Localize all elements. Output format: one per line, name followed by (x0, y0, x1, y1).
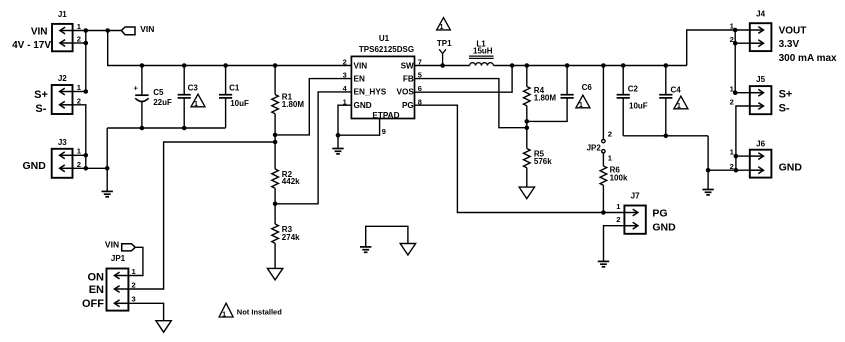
svg-text:ETPAD: ETPAD (372, 111, 399, 120)
wire R3 bottom lead (274, 243, 276, 268)
svg-text:S+: S+ (34, 89, 48, 101)
svg-text:VIN: VIN (105, 240, 119, 250)
ground under R3 (267, 268, 282, 280)
svg-text:1: 1 (77, 147, 82, 156)
wire VOUT rail to J4 (687, 30, 750, 66)
svg-text:1: 1 (677, 101, 681, 110)
svg-text:10uF: 10uF (629, 101, 648, 110)
not installed triangle C4 (674, 96, 688, 110)
wire J1 pin1 to VIN flag (73, 30, 122, 32)
svg-text:300 mA max: 300 mA max (779, 53, 837, 64)
svg-text:GND: GND (652, 222, 676, 234)
capacitor C4 (659, 94, 672, 96)
svg-text:2: 2 (343, 58, 347, 67)
connector J2 (52, 85, 73, 114)
svg-text:1.80M: 1.80M (282, 100, 305, 109)
svg-text:SW: SW (401, 62, 414, 71)
connector JP1 (107, 269, 129, 311)
jumper JP2 (602, 139, 605, 153)
svg-text:GND: GND (779, 161, 803, 173)
svg-text:C5: C5 (153, 88, 164, 97)
wire J2 pin2 to J3 chain (73, 105, 86, 169)
capacitor C4 leads (665, 66, 667, 95)
capacitor C5 (135, 95, 148, 101)
svg-text:3: 3 (343, 71, 347, 80)
svg-text:2: 2 (77, 35, 81, 44)
ground under R5 (519, 187, 534, 199)
wire JP2 to R6 (602, 153, 604, 166)
svg-text:VIN: VIN (31, 26, 48, 37)
resistor R3 (272, 224, 279, 243)
svg-text:576k: 576k (534, 157, 552, 166)
test point TP1 (439, 49, 446, 65)
svg-text:2: 2 (616, 215, 620, 224)
wire JP1 pin1 to VIN flag (128, 247, 143, 275)
svg-text:VOUT: VOUT (779, 26, 807, 37)
svg-text:C3: C3 (188, 83, 199, 92)
wire VOUT rail (493, 65, 686, 67)
resistor R2 (272, 169, 279, 188)
wire ground net tie (366, 226, 408, 247)
svg-text:2: 2 (77, 160, 81, 169)
svg-text:1: 1 (77, 83, 82, 92)
capacitor C6 leads (566, 66, 568, 95)
not installed triangle C6 (576, 95, 590, 109)
svg-text:3.3V: 3.3V (779, 39, 800, 50)
resistor R1 (272, 95, 279, 114)
svg-text:1.80M: 1.80M (534, 94, 557, 103)
svg-text:TPS62125DSG: TPS62125DSG (359, 45, 414, 54)
svg-text:S+: S+ (779, 89, 793, 101)
wire ETPAD to ground (338, 119, 380, 136)
svg-text:274k: 274k (282, 233, 300, 242)
ground net tie right (400, 244, 415, 256)
wire left ground vertical (106, 128, 108, 191)
connector J5 (750, 86, 772, 114)
wire VIN chain J1-J2 (85, 31, 87, 92)
svg-text:C4: C4 (671, 85, 682, 94)
wire J3 pin1 stub (73, 154, 86, 156)
wire right ground vertical (707, 136, 709, 190)
capacitor C2 (617, 94, 630, 96)
ground under J7 (598, 261, 609, 266)
wire JP2 top lead (602, 66, 604, 140)
wire R2-R3 link (274, 188, 276, 224)
svg-text:J5: J5 (756, 75, 765, 84)
svg-text:TP1: TP1 (437, 39, 452, 48)
wire R6 bottom lead (602, 185, 604, 212)
connector J1 (52, 24, 73, 51)
svg-text:2: 2 (608, 129, 612, 138)
svg-text:2: 2 (730, 162, 734, 171)
svg-text:2: 2 (77, 96, 81, 105)
wire J2 pin1 stub (73, 91, 86, 93)
svg-text:J6: J6 (756, 139, 765, 148)
svg-text:S-: S- (35, 103, 46, 115)
svg-text:3: 3 (132, 295, 136, 304)
svg-text:PG: PG (402, 101, 414, 110)
connector J7 (624, 206, 645, 234)
svg-text:C1: C1 (229, 83, 240, 92)
svg-text:1: 1 (77, 22, 82, 31)
svg-text:15uH: 15uH (473, 47, 493, 56)
svg-text:+: + (134, 84, 139, 93)
capacitor C1 leads (225, 66, 227, 95)
wire R1 top lead (274, 66, 276, 95)
wire R4 top lead (526, 66, 528, 87)
svg-text:EN_HYS: EN_HYS (354, 88, 387, 97)
node VIN flag bottom (122, 244, 136, 251)
svg-text:1: 1 (608, 154, 613, 163)
svg-text:2: 2 (132, 281, 136, 290)
ground under U1 (332, 149, 343, 154)
connector J4 (750, 23, 772, 51)
ground under J3 (102, 191, 113, 196)
svg-text:U1: U1 (379, 34, 390, 43)
wire J3 pin2 right (73, 167, 108, 169)
node VIN flag top (121, 27, 135, 35)
svg-text:VIN: VIN (140, 24, 154, 34)
svg-text:442k: 442k (282, 177, 300, 186)
wire JP1 pin3 to ground (128, 303, 163, 320)
capacitor C5 leads (141, 66, 143, 96)
capacitor C2 leads (622, 66, 624, 95)
wire J4 pin2 stub (735, 42, 750, 44)
wire J6 pin1 stub (736, 155, 750, 157)
svg-text:PG: PG (652, 208, 667, 220)
svg-text:J4: J4 (756, 10, 765, 19)
svg-text:2: 2 (730, 98, 734, 107)
svg-text:JP1: JP1 (111, 254, 126, 263)
svg-text:J2: J2 (58, 74, 67, 83)
wire R4-R5 link (526, 106, 528, 149)
wire J5 pin2 to J6 chain (736, 106, 750, 170)
svg-text:JP2: JP2 (587, 144, 602, 153)
wire PG to J7 (415, 105, 625, 212)
capacitor C6 (561, 94, 574, 96)
ground net tie left (360, 247, 371, 252)
svg-text:1: 1 (440, 22, 444, 31)
resistor R5 (524, 149, 531, 168)
svg-text:1: 1 (616, 202, 621, 211)
wire J4 output chain (734, 30, 736, 93)
svg-text:GND: GND (22, 160, 46, 172)
op-amp U1 TPS62125DSG body (351, 56, 414, 118)
svg-text:10uF: 10uF (230, 99, 249, 108)
wire EN node to U1 EN (275, 79, 351, 135)
svg-text:C2: C2 (628, 85, 639, 94)
wire input cap bottom rail (107, 127, 225, 129)
svg-text:ON: ON (88, 272, 105, 284)
svg-text:EN: EN (89, 284, 104, 296)
resistor R6 (600, 166, 607, 185)
ground right side (702, 190, 713, 195)
svg-text:J3: J3 (58, 138, 67, 147)
wire VIN tap down and top rail (108, 31, 352, 66)
wire VOS to rail (415, 66, 513, 93)
svg-text:9: 9 (382, 127, 386, 136)
svg-text:OFF: OFF (82, 298, 104, 310)
wire J7 pin2 to ground (604, 226, 625, 262)
wire J1 pin2 stub (73, 42, 86, 44)
inductor L1 (469, 56, 494, 65)
svg-text:VOS: VOS (397, 88, 415, 97)
wire SW to L1 (415, 65, 470, 67)
svg-text:1: 1 (132, 267, 137, 276)
wire EN_HYS node to U1 (275, 92, 351, 204)
not installed legend triangle (219, 303, 233, 318)
svg-text:EN: EN (354, 74, 365, 83)
not installed triangle C3 (191, 94, 205, 108)
svg-text:22uF: 22uF (153, 98, 172, 107)
svg-text:J1: J1 (58, 10, 67, 19)
svg-text:GND: GND (354, 101, 372, 110)
wire EN node to JP1 pin2 (128, 142, 275, 289)
svg-text:C6: C6 (582, 83, 593, 92)
wire J6 pin2 line (708, 169, 750, 171)
wire J5 pin1 stub (735, 92, 750, 94)
wire U1 GND pin to ground (338, 105, 351, 148)
svg-text:100k: 100k (610, 174, 628, 183)
ground under JP1 (156, 321, 171, 333)
not installed triangle TP1 (437, 18, 451, 32)
capacitor C3 leads (183, 66, 185, 95)
resistor R4 (524, 87, 531, 106)
connector J6 (750, 150, 772, 178)
capacitor C3 (178, 94, 191, 96)
svg-text:1: 1 (222, 309, 226, 318)
connector J3 (52, 149, 73, 178)
svg-text:VIN: VIN (354, 62, 368, 71)
wire output cap bottom rail (623, 135, 708, 137)
capacitor C1 (219, 94, 232, 96)
svg-text:1: 1 (194, 99, 198, 108)
wire R1-R2 link (274, 114, 276, 169)
svg-text:Not Installed: Not Installed (237, 308, 282, 317)
svg-text:S-: S- (779, 103, 790, 115)
wire FB to divider (415, 79, 527, 128)
svg-text:FB: FB (403, 74, 414, 83)
wire R5 bottom lead (526, 168, 528, 187)
svg-text:1: 1 (579, 100, 583, 109)
svg-text:J7: J7 (631, 192, 640, 201)
svg-text:4V - 17V: 4V - 17V (12, 40, 51, 51)
